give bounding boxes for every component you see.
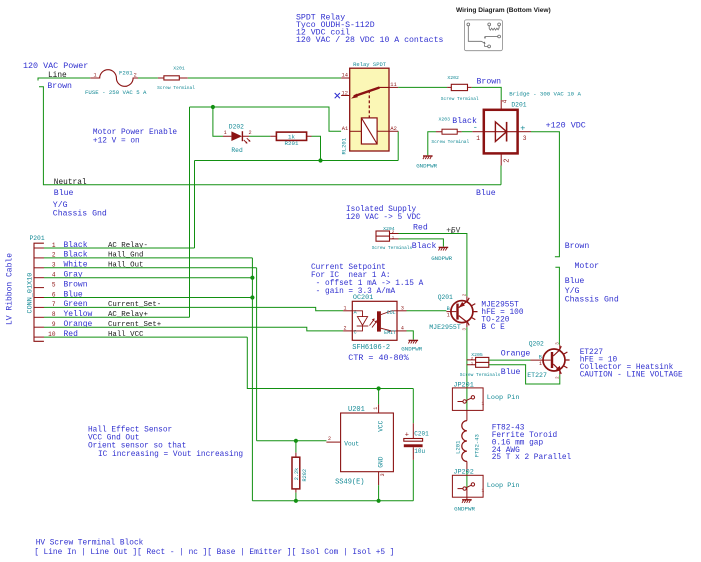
relay actuation dashed line [368,90,370,118]
relay switch arm [354,87,390,96]
svg-text:Blue: Blue [501,367,521,377]
wire pin1 AC_Relay- [44,247,195,249]
wire D202 to R201 [249,135,270,137]
wire rail to P201 pin 1 [194,161,196,249]
wire to R202 top [295,441,297,453]
svg-text:CAUTION - LINE VOLTAGE: CAUTION - LINE VOLTAGE [580,372,683,380]
svg-text:Hall Effect Sensor: Hall Effect Sensor [88,427,172,435]
svg-text:SS49(E): SS49(E) [335,479,364,487]
wire fuse to X201 [138,77,158,79]
svg-text:25 T x 2 Parallel: 25 T x 2 Parallel [492,454,572,462]
svg-text:Chassis Gnd: Chassis Gnd [53,208,107,218]
svg-text:Bridge - 300 VAC 10 A: Bridge - 300 VAC 10 A [509,90,581,97]
wire X203 to ground [428,132,436,156]
svg-text:Hall_VCC: Hall_VCC [108,331,144,339]
wire pin10 Hall_VCC [44,336,247,338]
svg-text:[ Line In | Line Out ][ Rect -: [ Line In | Line Out ][ Rect - | nc ][ B… [34,549,394,557]
svg-text:+5V: +5V [446,227,460,235]
svg-text:GND: GND [378,456,385,467]
svg-text:Blue: Blue [54,188,74,198]
svg-text:Q202: Q202 [529,341,544,348]
wire pin3 Hall_Out [44,267,257,269]
svg-text:A1: A1 [342,126,348,132]
svg-text:GNDPWR: GNDPWR [401,345,422,352]
svg-text:11: 11 [390,82,396,88]
fuse F201 [90,70,138,87]
wire pin7 Current_Set- to OC201 pin1 [44,307,343,310]
svg-text:2.2k: 2.2k [294,468,300,480]
bridge pin 1 [472,131,484,133]
wire Blue X205 to Q202 emitter [489,365,560,384]
svg-text:A: A [354,309,357,315]
svg-text:Hall_Out: Hall_Out [108,262,143,270]
svg-text:B: B [539,354,542,360]
svg-text:120 VAC / 28 VDC 10 A contacts: 120 VAC / 28 VDC 10 A contacts [296,35,443,45]
relay pin 12 no-connect [341,95,350,97]
junction [250,276,254,280]
svg-text:Chassis Gnd: Chassis Gnd [565,295,619,305]
wire Hall VCC rail [247,337,413,388]
resistor R1 R201 1k [270,135,311,137]
svg-text:1: 1 [482,402,485,407]
svg-text:D201: D201 [511,102,526,109]
relay pin 14 [341,77,350,79]
P201 pin 10 [34,336,44,338]
wire +5V to Q201 emitter [399,234,467,297]
P201 pin 8 [34,316,44,318]
inductor L201 [462,421,467,462]
svg-text:CTR = 40-80%: CTR = 40-80% [348,353,409,363]
U201 pin 1 [378,404,380,413]
wire pin8 AC_Relay+ [44,316,190,318]
svg-text:AC_Relay-: AC_Relay- [108,242,148,250]
svg-text:+120 VDC: +120 VDC [546,121,586,131]
svg-text:Brown: Brown [64,280,88,289]
screw terminal X204 [376,231,390,241]
svg-text:L201: L201 [455,440,462,454]
wire hall ground rail [252,500,413,502]
screw terminal X203 [436,131,462,133]
svg-text:Vout: Vout [344,441,359,448]
svg-text:2: 2 [328,436,331,442]
svg-text:Orange: Orange [501,350,531,359]
OC201 pin 3 collector [397,310,407,312]
screw terminal X202 [447,86,472,88]
ground GNDPWR [439,246,449,248]
svg-text:4: 4 [401,325,404,331]
wire pin6 Blue [44,297,252,299]
svg-text:3: 3 [401,305,404,311]
svg-text:Relay SPDT: Relay SPDT [353,61,387,68]
svg-text:Screw Terminal: Screw Terminal [431,139,469,145]
svg-text:Blue: Blue [565,276,585,286]
P201 pin 7 [34,306,44,308]
wire bridge pin 2 to Neutral [500,166,502,185]
svg-text:1: 1 [373,407,379,410]
svg-text:Current_Set+: Current_Set+ [108,321,162,329]
junction [250,295,254,299]
svg-text:2: 2 [344,325,347,331]
svg-text:Line: Line [48,72,67,80]
svg-text:1: 1 [476,135,480,142]
svg-text:Isolated Supply: Isolated Supply [346,206,417,214]
P201 pin 2 [34,257,44,259]
svg-text:Loop Pin: Loop Pin [487,482,520,490]
P201 pin 3 [34,267,44,269]
svg-text:Current_Set-: Current_Set- [108,301,161,309]
relay pin A2 [377,130,398,132]
svg-text:EMIT: EMIT [384,330,396,336]
svg-text:X203: X203 [439,116,451,122]
svg-text:Y/G: Y/G [565,286,580,296]
wire U201 pin 3 to gnd rail [378,485,380,501]
wire pin2 Hall_Gnd [44,257,252,259]
wire VCC rail to U201 pin 1 [378,389,380,405]
wire AC_Relay- rail [195,160,399,162]
svg-text:3: 3 [380,473,386,476]
svg-text:1: 1 [482,489,485,494]
relay coil [361,118,377,144]
OC201 light arrows [370,320,377,328]
wire Hall_Gnd vertical [251,258,253,501]
svg-text:- offset 1 mA -> 1.15 A: - offset 1 mA -> 1.15 A [311,280,424,288]
svg-text:Brown: Brown [47,82,72,91]
svg-text:C: C [354,330,357,336]
wire +120 VDC Brown feed [531,132,559,257]
svg-text:Motor Power Enable: Motor Power Enable [93,129,178,137]
svg-text:C201: C201 [414,430,429,437]
wire C201 to gnd rail [412,460,414,501]
svg-text:+: + [405,431,409,439]
junction [294,499,298,503]
svg-text:CONN_01X10: CONN_01X10 [27,273,35,314]
svg-text:D202: D202 [229,124,244,131]
svg-text:RL201: RL201 [341,137,348,154]
svg-text:1: 1 [447,313,450,319]
relay pin A1 [350,130,362,132]
svg-text:3: 3 [523,135,527,142]
svg-text:A2: A2 [390,126,396,132]
svg-text:Red: Red [413,223,428,233]
wire Neutral rail [39,87,501,185]
junction [377,386,381,390]
ground GNDPWR [423,155,433,157]
svg-text:B: B [447,306,450,312]
wire Orange X205 to Q202 base [489,359,531,361]
wire X201 to relay pin 14 [188,77,341,79]
junction [377,499,381,503]
ground GNDPWR [409,339,419,341]
svg-text:GNDPWR: GNDPWR [454,506,475,513]
svg-text:2: 2 [504,159,512,163]
svg-text:14: 14 [342,73,348,79]
svg-text:P201: P201 [30,235,45,242]
OC201 pin 4 emitter [397,330,407,332]
svg-text:Red: Red [231,147,243,154]
svg-text:R201: R201 [285,140,299,147]
svg-text:OC201: OC201 [353,294,373,302]
junction [318,158,322,162]
P201 pin 5 [34,287,44,289]
wire vertical to P201 pin 8 [189,107,191,317]
svg-text:+12 V = on: +12 V = on [93,138,140,146]
OC201 phototransistor [377,311,381,331]
svg-text:MJE2955T: MJE2955T [429,324,461,331]
OC201 internal LED [352,311,362,331]
svg-text:Neutral: Neutral [54,179,87,187]
wire R202 bottom to gnd rail [295,493,297,501]
wire to D202 anode [213,107,223,136]
svg-text:Hall_Gnd: Hall_Gnd [108,252,143,260]
wire L201 to JP202 [466,471,468,488]
svg-text:5: 5 [52,281,56,288]
svg-text:R202: R202 [302,469,308,481]
svg-text:Q201: Q201 [438,294,453,301]
svg-text:120 VAC Power: 120 VAC Power [23,61,88,71]
resistor R202 2.2k [295,453,297,493]
P201 pin 6 [34,297,44,299]
screw terminal X201 [158,77,188,79]
svg-text:FUSE - 250 VAC 5 A: FUSE - 250 VAC 5 A [85,89,147,96]
bridge pin 3 [518,131,531,133]
svg-text:VCC: VCC [378,420,385,431]
svg-text:1: 1 [94,73,97,79]
wire Hall_Out vertical [256,268,258,441]
wire Hall_Out to U201 pin 2 [257,440,327,442]
junction [211,105,215,109]
svg-text:2: 2 [249,130,252,136]
wire AC_Relay+ rail to relay A1 [190,107,342,131]
svg-text:1: 1 [224,130,227,136]
svg-text:Black: Black [452,116,477,126]
wire OC201 to Q201 base [407,310,447,312]
svg-text:Wiring Diagram (Bottom View): Wiring Diagram (Bottom View) [456,7,551,14]
wire pin9 Current_Set+ to OC201 pin2 [44,327,343,331]
svg-text:X201: X201 [173,66,185,72]
svg-text:+: + [520,123,525,133]
svg-text:For IC near 1 A:: For IC near 1 A: [311,272,391,280]
junction [294,439,298,443]
U201 pin 2 [326,441,340,443]
svg-text:Orient sensor so that: Orient sensor so that [88,443,186,451]
svg-text:1: 1 [344,305,347,311]
svg-text:2: 2 [134,73,137,79]
wire OC201 pin4 to ground [407,331,414,340]
svg-text:Screw Terminal: Screw Terminal [157,85,195,91]
svg-text:Loop Pin: Loop Pin [487,394,520,402]
svg-text:F201: F201 [119,69,133,76]
wire Line in to fuse F201 [38,78,90,81]
LED D202 [223,135,249,137]
svg-text:AC_Relay+: AC_Relay+ [108,311,148,319]
svg-text:GNDPWR: GNDPWR [416,163,437,170]
wire Q201 collector down through JP201 [466,327,468,410]
svg-text:IC increasing = Vout increasin: IC increasing = Vout increasing [98,451,243,459]
svg-text:GNDPWR: GNDPWR [431,255,452,262]
wire X204 black to ground [399,239,444,247]
relay pin 11 [389,86,398,88]
wire rail to relay A2 [397,131,399,160]
svg-text:Screw Terminals: Screw Terminals [460,372,501,378]
wire X203 to bridge pin 1 [462,131,473,133]
P201 pin 1 [34,247,44,249]
U201 pin 3 [378,472,380,486]
svg-text:Screw Terminal: Screw Terminal [441,96,479,102]
wire relay pin 11 to X202 [398,86,447,88]
svg-text:SFH6106-2: SFH6106-2 [352,344,390,352]
svg-text:1: 1 [539,361,542,367]
svg-text:FT82-43: FT82-43 [473,434,480,457]
svg-text:Brown: Brown [477,77,502,86]
svg-text:Motor: Motor [575,262,600,271]
svg-text:ET227: ET227 [527,372,547,379]
svg-text:COL: COL [387,310,396,316]
svg-text:X205: X205 [471,352,483,358]
svg-text:B C E: B C E [481,324,505,332]
screw terminal X205 [467,360,476,365]
OC201 pin 2 cathode [343,330,352,332]
P201 pin 9 [34,326,44,328]
relay bottom view drawing [464,20,502,51]
svg-text:Black: Black [412,241,437,251]
wire VCC rail to C201 [412,389,414,424]
svg-text:Brown: Brown [565,242,590,251]
svg-text:10u: 10u [414,448,425,455]
relay RL201 [350,68,389,151]
wire R201 to AC_Relay- rail [312,136,321,160]
svg-text:X204: X204 [383,226,395,232]
svg-text:120 VAC -> 5 VDC: 120 VAC -> 5 VDC [346,214,421,222]
svg-text:Blue: Blue [476,188,496,198]
P201 pin 4 [34,277,44,279]
OC201 pin 1 anode [343,310,352,312]
wire Motor to Q202 collector [555,267,559,345]
svg-text:LV Ribbon Cable: LV Ribbon Cable [6,253,15,325]
bridge pin 2 [500,153,502,165]
svg-text:VCC Gnd Out: VCC Gnd Out [88,435,139,443]
svg-text:12: 12 [342,90,348,96]
wire pin4 Gray [44,277,252,279]
ground GNDPWR [462,499,472,501]
svg-text:4: 4 [501,99,508,103]
svg-text:Current Setpoint: Current Setpoint [311,264,386,272]
svg-text:X202: X202 [447,75,459,81]
wire X202 to bridge pin 4 [472,87,502,100]
svg-text:Screw Terminals: Screw Terminals [372,245,413,251]
svg-text:HV Screw Terminal Block: HV Screw Terminal Block [36,539,144,547]
